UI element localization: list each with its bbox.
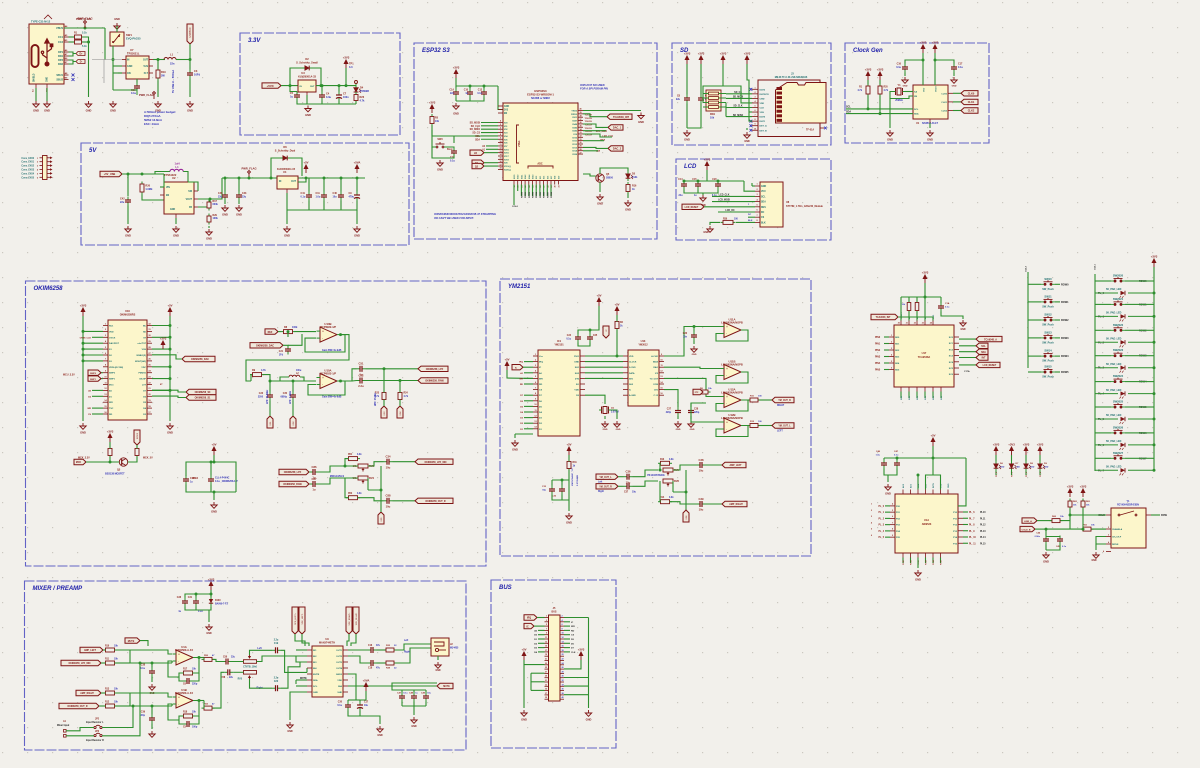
net label IRQ xyxy=(524,615,537,620)
ground xyxy=(885,484,891,490)
svg-text:IO11: IO11 xyxy=(572,141,577,143)
pin PL11 xyxy=(958,542,963,544)
pin R7 xyxy=(147,360,152,362)
svg-text:C28: C28 xyxy=(177,597,182,599)
svg-text:5LN: 5LN xyxy=(143,65,148,68)
transistor xyxy=(119,458,127,466)
wire xyxy=(110,457,119,463)
junction xyxy=(340,177,343,180)
wire xyxy=(958,458,966,506)
pin 21 xyxy=(545,660,549,662)
ground xyxy=(927,130,933,136)
wire xyxy=(290,68,302,86)
junction xyxy=(344,465,347,468)
pin R1 xyxy=(147,325,152,327)
pin D5 xyxy=(533,405,538,407)
svg-text:OKIM_CLK: OKIM_CLK xyxy=(80,337,92,339)
junction xyxy=(82,342,85,345)
svg-text:CLK: CLK xyxy=(760,108,765,110)
svg-text:JP2: JP2 xyxy=(95,719,100,721)
svg-text:37: 37 xyxy=(579,119,581,121)
wire xyxy=(583,130,606,132)
pin R10 xyxy=(147,378,152,380)
wire xyxy=(726,97,752,99)
svg-text:IC1: IC1 xyxy=(557,339,562,343)
section frame MIXER / PREAMP xyxy=(25,581,467,750)
svg-text:8: 8 xyxy=(500,134,501,136)
wire xyxy=(717,180,719,183)
power flag PWR_FLAG xyxy=(84,21,87,29)
pin IO13 xyxy=(578,146,583,148)
svg-text:+: + xyxy=(726,420,728,424)
capacitor xyxy=(1057,536,1063,545)
wire xyxy=(706,464,723,466)
junction xyxy=(934,59,937,62)
section frame 5V xyxy=(81,143,409,245)
wire xyxy=(959,345,976,347)
svg-text:LD: LD xyxy=(474,152,477,155)
svg-text:GND: GND xyxy=(676,429,681,431)
resistor xyxy=(384,648,397,652)
junction xyxy=(157,58,160,61)
svg-text:8: 8 xyxy=(754,119,755,121)
net label GD4 xyxy=(397,406,403,418)
svg-text:ROW5: ROW5 xyxy=(540,191,542,198)
svg-text:GND: GND xyxy=(222,213,228,217)
wire xyxy=(599,182,601,192)
svg-text:5K_PAD_LED: 5K_PAD_LED xyxy=(1106,466,1122,469)
wire xyxy=(197,700,205,702)
wire xyxy=(425,702,427,707)
wire xyxy=(959,338,976,340)
pin R11 xyxy=(147,384,152,386)
svg-text:C34: C34 xyxy=(386,455,391,459)
section frame SD xyxy=(672,43,831,145)
svg-text:SW14: SW14 xyxy=(1044,349,1052,353)
capacitor xyxy=(222,192,228,201)
svg-text:SD_CLK: SD_CLK xyxy=(471,126,481,128)
trimmer RV2 xyxy=(233,671,256,680)
wire xyxy=(193,701,200,717)
ground xyxy=(700,195,706,201)
pin DP2 xyxy=(64,59,69,61)
svg-text:IO45/IO46/IO48/IO47/IO21/IO0/I: IO45/IO46/IO48/IO47/IO21/IO0/IO35-37 STR… xyxy=(434,212,496,216)
wire xyxy=(393,461,416,463)
IC U4 KLDO500211-05 xyxy=(277,176,298,189)
no-connect xyxy=(750,88,753,91)
svg-text:VDDO: VDDO xyxy=(936,86,938,92)
wire xyxy=(1035,528,1046,530)
junction xyxy=(213,491,216,494)
wire xyxy=(616,315,618,322)
wire xyxy=(932,558,934,564)
svg-text:+3V3: +3V3 xyxy=(429,101,436,105)
svg-text:3.3V: 3.3V xyxy=(248,38,261,44)
pin IO6 xyxy=(546,181,548,185)
svg-text:9: 9 xyxy=(546,633,547,635)
svg-text:N16R8 or N8R2: N16R8 or N8R2 xyxy=(531,96,550,100)
wire xyxy=(440,157,454,159)
svg-text:AMP_LEFT: AMP_LEFT xyxy=(729,464,742,467)
capacitor xyxy=(559,486,565,495)
svg-text:SDA: SDA xyxy=(846,110,851,113)
svg-text:Gain BW=4x-9dB: Gain BW=4x-9dB xyxy=(322,396,342,399)
svg-text:0.1u: 0.1u xyxy=(131,92,136,95)
wire xyxy=(884,349,889,351)
svg-text:-: - xyxy=(178,659,179,663)
svg-text:2: 2 xyxy=(891,341,892,343)
net label +5V0 xyxy=(262,83,281,88)
pin Cons_EX04 xyxy=(40,172,43,174)
wire xyxy=(963,536,968,538)
switch SW1 EVQ-PAC05 xyxy=(110,32,124,46)
svg-text:CMD: CMD xyxy=(760,98,765,100)
svg-text:GND: GND xyxy=(960,329,965,331)
wire xyxy=(308,471,311,473)
net label SPK_RIGHT+ xyxy=(346,607,352,634)
pin 3V3 xyxy=(498,109,503,111)
svg-text:DC: DC xyxy=(761,212,765,214)
capacitor xyxy=(306,192,312,201)
power +3V3 xyxy=(1038,447,1042,455)
pin MUTE xyxy=(307,673,312,675)
pin 40 xyxy=(560,698,564,700)
resistor xyxy=(156,68,160,81)
wire xyxy=(305,335,345,352)
pin 32 xyxy=(560,681,564,683)
svg-text:GND: GND xyxy=(86,109,92,113)
wire xyxy=(130,693,172,697)
svg-text:CLK: CLK xyxy=(571,652,576,654)
svg-text:INT: INT xyxy=(982,358,986,360)
svg-text:Input Resistor R: Input Resistor R xyxy=(86,739,104,742)
pin PL0 xyxy=(890,505,895,507)
wire xyxy=(524,372,533,374)
pin 25 xyxy=(545,668,549,670)
svg-text:SPK_RIGHT-: SPK_RIGHT- xyxy=(356,613,358,626)
svg-text:GND: GND xyxy=(305,113,311,117)
svg-text:DET_A: DET_A xyxy=(760,125,768,128)
svg-text:2.2u: 2.2u xyxy=(274,640,279,642)
wire xyxy=(924,392,926,399)
pin L5 xyxy=(103,348,108,350)
pin R14 xyxy=(147,401,152,403)
svg-text:IO10: IO10 xyxy=(572,137,578,139)
wire xyxy=(583,174,596,176)
pin DAT0 xyxy=(752,116,758,118)
section frame LCD xyxy=(676,159,831,240)
svg-text:C19: C19 xyxy=(274,643,279,645)
wire xyxy=(399,381,401,393)
svg-text:4.7k: 4.7k xyxy=(360,99,365,102)
svg-text:+: + xyxy=(322,329,324,333)
junction xyxy=(469,85,472,88)
svg-text:R18: R18 xyxy=(183,712,188,714)
svg-text:ROW1: ROW1 xyxy=(525,191,527,198)
pin SHD xyxy=(343,691,348,693)
svg-text:BIAS: BIAS xyxy=(653,361,659,364)
svg-text:22u: 22u xyxy=(218,195,223,198)
switch SW2025 xyxy=(1111,403,1125,408)
svg-text:33: 33 xyxy=(579,132,581,134)
wire xyxy=(917,558,919,569)
wire xyxy=(934,53,936,85)
wire xyxy=(1125,303,1138,305)
test point TP1 xyxy=(355,84,357,86)
svg-text:40: 40 xyxy=(579,108,581,111)
pin IO2 xyxy=(498,128,503,130)
wire xyxy=(1095,544,1097,550)
svg-text:MAX9744ETH: MAX9744ETH xyxy=(319,641,335,644)
svg-text:C16: C16 xyxy=(368,645,373,647)
wire xyxy=(618,485,624,487)
svg-text:SW2024: SW2024 xyxy=(1113,374,1124,378)
pin Cons_EX02 xyxy=(40,165,43,167)
svg-text:3.579545M: 3.579545M xyxy=(576,475,579,486)
svg-text:GND: GND xyxy=(211,510,217,514)
capacitor C39 xyxy=(697,501,706,507)
junction xyxy=(589,329,592,332)
resistor xyxy=(207,200,211,211)
wire xyxy=(583,114,607,117)
ground xyxy=(125,226,131,232)
wire xyxy=(564,638,570,640)
pin SBU1 xyxy=(64,74,69,76)
svg-text:SCL: SCL xyxy=(846,106,851,109)
wire xyxy=(905,91,913,93)
wire xyxy=(366,368,419,370)
svg-text:COLD_B: COLD_B xyxy=(1022,529,1031,531)
svg-text:C58: C58 xyxy=(221,677,226,679)
svg-text:REF: REF xyxy=(268,331,273,334)
junction xyxy=(320,84,323,87)
junction xyxy=(270,177,273,180)
pin 15 xyxy=(545,647,549,649)
pin B3 xyxy=(925,553,927,558)
net label OKIM6258_LPF_MIX xyxy=(61,660,101,665)
svg-text:VBUS: VBUS xyxy=(56,27,63,30)
wire xyxy=(251,375,252,381)
pin IO39 xyxy=(513,181,515,185)
svg-text:MUTE: MUTE xyxy=(313,674,320,676)
svg-text:VDD: VDD xyxy=(629,356,634,358)
net label OKIM6258_DAC xyxy=(182,356,215,361)
net label GD3 xyxy=(381,406,387,418)
svg-text:-: - xyxy=(726,427,727,431)
wire xyxy=(1138,355,1154,357)
junction xyxy=(189,58,192,61)
ground xyxy=(1043,552,1049,558)
svg-text:0.1u: 0.1u xyxy=(337,705,342,707)
wire xyxy=(537,617,545,619)
svg-text:ESC: 44mA: ESC: 44mA xyxy=(144,122,159,126)
svg-text:C30: C30 xyxy=(338,702,343,704)
wire xyxy=(910,558,912,564)
wire xyxy=(402,705,426,707)
pin IO45 xyxy=(578,126,583,128)
svg-text:GND: GND xyxy=(354,234,360,238)
wire xyxy=(885,505,890,507)
pin IO10 xyxy=(578,136,583,138)
svg-text:MIXER / PREAMP: MIXER / PREAMP xyxy=(33,586,84,592)
capacitor xyxy=(698,95,704,104)
wire xyxy=(940,558,942,564)
svg-text:GND: GND xyxy=(915,578,921,582)
net label LCD_RESET xyxy=(682,204,704,209)
wire xyxy=(115,662,131,664)
pin DAT3/CD xyxy=(752,93,758,95)
pin IO19(-) xyxy=(498,165,503,167)
svg-text:CHANELA: CHANELA xyxy=(1112,528,1123,531)
capacitor xyxy=(184,721,193,727)
pin 3 xyxy=(545,621,549,623)
wire xyxy=(716,400,748,411)
pin P1N5 xyxy=(889,369,894,371)
wire xyxy=(103,649,106,651)
pin VBUS xyxy=(64,27,69,29)
wire xyxy=(152,348,170,350)
wire xyxy=(195,594,197,598)
pin 36 xyxy=(560,690,564,692)
svg-text:SD: SD xyxy=(143,331,146,333)
power +5V xyxy=(212,447,216,455)
wire xyxy=(348,674,356,700)
pin DAT1 xyxy=(752,120,758,122)
svg-text:10n: 10n xyxy=(683,336,688,338)
wire xyxy=(1096,537,1106,545)
wire xyxy=(1070,521,1106,529)
svg-text:PL_1: PL_1 xyxy=(1012,471,1014,477)
wire xyxy=(900,392,902,399)
svg-text:RV4: RV4 xyxy=(369,476,375,480)
svg-text:3.3u: 3.3u xyxy=(326,96,331,99)
svg-text:SDA: SDA xyxy=(981,351,986,354)
pin stub xyxy=(929,119,931,123)
svg-text:C3: C3 xyxy=(194,69,198,73)
wire xyxy=(686,104,688,129)
wire xyxy=(700,64,702,95)
pin B1 xyxy=(910,553,912,558)
trimmer RV6 xyxy=(663,479,673,487)
power +5V xyxy=(505,362,509,370)
svg-text:DAT0: DAT0 xyxy=(760,116,766,119)
resistor xyxy=(658,500,672,504)
wire xyxy=(142,195,164,201)
pin 1 xyxy=(545,617,549,619)
svg-text:SPK_LEFT+: SPK_LEFT+ xyxy=(295,612,297,624)
pin IO16 xyxy=(498,152,503,154)
svg-text:LED: LED xyxy=(1030,466,1035,468)
wire xyxy=(86,461,110,463)
svg-text:OUT: OUT xyxy=(310,86,315,88)
pin R6 xyxy=(954,373,959,375)
diode xyxy=(280,156,290,161)
svg-text:SW12: SW12 xyxy=(1044,313,1052,317)
pin stubs U2 xyxy=(160,186,164,188)
pin IO12 xyxy=(578,143,583,145)
ground xyxy=(684,130,690,136)
svg-text:+3V3: +3V3 xyxy=(578,648,585,652)
wire xyxy=(280,377,289,381)
svg-text:LED: LED xyxy=(1044,466,1049,468)
wire xyxy=(1045,545,1047,551)
switch SW13 xyxy=(1041,334,1055,339)
power +3V3 xyxy=(923,275,927,283)
svg-text:WR: WR xyxy=(519,378,523,380)
wire xyxy=(953,73,955,77)
svg-text:OKIM6258_RAW: OKIM6258_RAW xyxy=(425,380,444,383)
ground xyxy=(915,570,921,576)
svg-text:HPF: 15.9Hz: HPF: 15.9Hz xyxy=(375,392,377,406)
capacitor C88 xyxy=(384,498,393,504)
svg-text:+3V3: +3V3 xyxy=(865,68,872,72)
wire xyxy=(469,86,471,89)
wire xyxy=(222,177,320,179)
ground xyxy=(149,731,155,737)
junction xyxy=(224,177,227,180)
pin D2 xyxy=(533,422,538,424)
wire xyxy=(578,306,599,334)
wire xyxy=(1138,280,1154,282)
svg-text:5K_PAD_LED: 5K_PAD_LED xyxy=(1106,288,1122,291)
svg-text:OKIM6258_OUT_R: OKIM6258_OUT_R xyxy=(67,706,88,708)
pin R2 xyxy=(954,348,959,350)
pin IO8 xyxy=(554,181,556,185)
wire xyxy=(377,649,386,651)
svg-text:2.2u: 2.2u xyxy=(274,677,279,679)
junction xyxy=(323,177,326,180)
svg-text:LEFT: LEFT xyxy=(777,430,783,432)
svg-text:MCK: MCK xyxy=(76,462,82,464)
pin L14 xyxy=(103,401,108,403)
svg-text:VDD: VDD xyxy=(574,390,579,392)
svg-text:R51: R51 xyxy=(348,454,353,456)
ground xyxy=(187,101,193,107)
crystal Y1 xyxy=(893,88,905,95)
wire xyxy=(935,60,954,64)
svg-text:21: 21 xyxy=(545,659,547,661)
resistor xyxy=(1068,499,1072,510)
wire xyxy=(698,190,718,194)
pin OUT xyxy=(149,59,153,61)
wire xyxy=(585,366,623,368)
wire xyxy=(1028,371,1041,373)
wire xyxy=(693,341,695,345)
svg-text:0.1u: 0.1u xyxy=(301,195,306,198)
wire xyxy=(35,88,37,101)
wire xyxy=(995,471,997,475)
pin D3 xyxy=(533,417,538,419)
wire xyxy=(546,185,548,197)
resistor xyxy=(698,390,711,394)
wire xyxy=(1092,528,1107,530)
wire xyxy=(867,96,869,109)
wire xyxy=(908,297,910,302)
svg-text:+5V: +5V xyxy=(211,443,216,447)
junction xyxy=(683,180,686,183)
junction xyxy=(169,336,172,339)
wire xyxy=(514,434,516,438)
ground xyxy=(691,346,697,352)
wire xyxy=(538,647,545,649)
wire xyxy=(319,466,341,472)
svg-text:+5V: +5V xyxy=(303,161,308,165)
wire xyxy=(583,147,608,148)
pin Cons_EX05 xyxy=(40,176,43,178)
svg-text:EN: EN xyxy=(504,113,508,115)
wire xyxy=(673,470,686,492)
svg-text:18: 18 xyxy=(562,650,564,652)
